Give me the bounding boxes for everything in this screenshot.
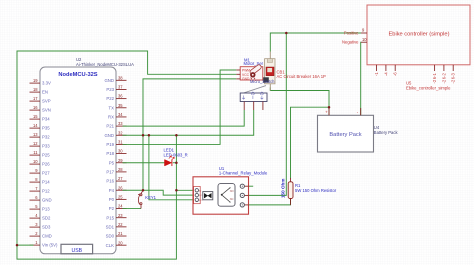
junction [285, 32, 288, 35]
svg-text:31: 31 [118, 140, 123, 145]
wire motor GND branch [143, 79, 236, 190]
junction [142, 189, 145, 192]
svg-text:P23: P23 [106, 87, 114, 92]
svg-text:SD2: SD2 [42, 216, 51, 221]
svg-text:34: 34 [118, 112, 123, 117]
junction [148, 134, 151, 137]
svg-text:SVN: SVN [42, 108, 51, 113]
svg-text:P12: P12 [42, 189, 50, 194]
led LED1 [164, 148, 188, 167]
svg-text:P14: P14 [42, 180, 50, 185]
svg-text:24: 24 [118, 204, 123, 209]
svg-text:CLK: CLK [106, 243, 114, 248]
svg-text:P16: P16 [106, 179, 114, 184]
svg-text:Battery Pack: Battery Pack [329, 132, 361, 138]
svg-text:36: 36 [118, 94, 123, 99]
junction [175, 134, 178, 137]
svg-text:P18: P18 [106, 151, 114, 156]
svg-text:11: 11 [33, 150, 38, 155]
svg-text:3.3V: 3.3V [42, 81, 51, 86]
wire GND row to switch pin2 [123, 110, 254, 135]
svg-text:17: 17 [33, 96, 38, 101]
svg-text:GND: GND [104, 78, 114, 83]
svg-text:RX: RX [108, 115, 114, 120]
svg-text:P2: P2 [109, 206, 115, 211]
svg-text:14: 14 [33, 123, 38, 128]
svg-text:AC Circuit Breaker 16A 1P: AC Circuit Breaker 16A 1P [277, 74, 327, 79]
svg-text:NC: NC [230, 197, 234, 201]
svg-text:KEY1: KEY1 [145, 195, 156, 200]
svg-text:18: 18 [33, 87, 38, 92]
resistor R1 150 Ohm [280, 178, 336, 205]
junction [175, 161, 178, 164]
svg-text:-2: -2 [451, 79, 456, 83]
svg-text:28: 28 [118, 167, 123, 172]
svg-text:5W 150 Ohm Resistor: 5W 150 Ohm Resistor [295, 188, 337, 193]
svg-text:P4: P4 [109, 188, 115, 193]
svg-text:13: 13 [33, 132, 38, 137]
usb connector of U2 [61, 244, 93, 254]
svg-text:P26: P26 [42, 162, 50, 167]
svg-text:P25: P25 [42, 153, 50, 158]
wire relay NC stub [244, 185, 253, 187]
wire P4 to key junction [123, 189, 144, 191]
svg-text:6-2: 6-2 [441, 73, 446, 80]
wire breaker top to controller Positive [270, 33, 361, 52]
svg-text:GND: GND [42, 198, 52, 203]
svg-text:15: 15 [33, 114, 38, 119]
svg-text:Vin (5V): Vin (5V) [42, 243, 58, 248]
svg-text:Positive: Positive [344, 31, 359, 36]
svg-text:Negative: Negative [342, 40, 359, 45]
wire breaker bottom to battery plus [270, 88, 329, 116]
circuit breaker CB1 [263, 52, 326, 91]
mcu U2 NodeMCU-32S [30, 57, 135, 254]
svg-text:SD3: SD3 [42, 225, 51, 230]
svg-text:SVP: SVP [42, 99, 51, 104]
svg-text:33: 33 [118, 121, 123, 126]
svg-text:19: 19 [33, 78, 38, 83]
wire GND branch to relay bottom pin [149, 135, 195, 200]
wire P21 to switch pin1 [123, 110, 245, 126]
wire P5 to LED anode [123, 162, 165, 164]
wire motor PWM to P19 [123, 70, 237, 144]
svg-text:150 Ohm: 150 Ohm [280, 179, 285, 198]
svg-text:P35: P35 [42, 126, 50, 131]
svg-text:P21: P21 [106, 124, 114, 129]
wire Vin 5V loop left [17, 51, 236, 245]
svg-text:Ebike controller (simple): Ebike controller (simple) [388, 31, 449, 37]
svg-text:P15: P15 [106, 215, 114, 220]
switch SW1 Micro_Switch [240, 79, 275, 110]
wire LED cathode to loop [173, 162, 177, 164]
svg-text:37: 37 [118, 85, 123, 90]
wire P2 to key bottom [123, 208, 142, 210]
svg-text:-6: -6 [393, 72, 398, 76]
svg-text:NodeMCU-32S: NodeMCU-32S [58, 72, 97, 78]
svg-text:P5: P5 [109, 160, 115, 165]
wire key junction to relay VCC mid pin [143, 190, 195, 195]
svg-text:38: 38 [118, 75, 123, 80]
svg-text:21: 21 [118, 231, 123, 236]
svg-text:SD0: SD0 [106, 234, 115, 239]
svg-text:12: 12 [33, 141, 38, 146]
relay module U1 1-Channel_Relay_Module [193, 166, 268, 214]
wire positive branch to relay NO terminal [244, 33, 286, 195]
svg-text:GND: GND [242, 77, 250, 81]
svg-text:Micro_Switch: Micro_Switch [250, 79, 275, 84]
svg-text:6-1: 6-1 [432, 73, 437, 80]
svg-text:26: 26 [118, 185, 123, 190]
svg-text:P17: P17 [106, 170, 114, 175]
battery pack U4 [318, 108, 399, 152]
svg-text:-1: -1 [374, 72, 379, 76]
svg-text:P19: P19 [106, 142, 114, 147]
svg-text:22: 22 [118, 222, 123, 227]
wire relay top pin to 5V loop [176, 189, 194, 191]
ebike controller U5 [342, 5, 470, 91]
svg-text:16: 16 [33, 105, 38, 110]
svg-text:P27: P27 [42, 171, 50, 176]
svg-text:35: 35 [118, 103, 123, 108]
svg-text:10: 10 [33, 159, 38, 164]
svg-text:TX: TX [109, 105, 115, 110]
wire battery plus to resistor top [291, 107, 330, 178]
svg-text:10: 10 [362, 37, 367, 42]
wire bottom 5V return [17, 136, 176, 259]
svg-text:23: 23 [118, 213, 123, 218]
svg-text:Ebike_controller_simple: Ebike_controller_simple [406, 86, 451, 91]
svg-text:NO: NO [230, 189, 234, 193]
svg-text:27: 27 [118, 176, 123, 181]
wire battery minus to controller Negative [360, 42, 362, 115]
svg-text:-2: -2 [441, 79, 446, 83]
svg-text:-4: -4 [383, 72, 388, 76]
svg-text:32: 32 [118, 130, 123, 135]
svg-text:USB: USB [71, 248, 82, 254]
svg-text:P13: P13 [42, 207, 50, 212]
svg-text:P0: P0 [109, 197, 115, 202]
junction [142, 134, 145, 137]
svg-text:P34: P34 [42, 117, 50, 122]
svg-text:EN: EN [42, 90, 48, 95]
svg-text:25: 25 [118, 194, 123, 199]
key switch KEY1 [138, 190, 157, 208]
svg-text:SD1: SD1 [106, 224, 115, 229]
svg-text:1-Channel_Relay_Module: 1-Channel_Relay_Module [219, 171, 268, 176]
svg-text:20: 20 [118, 240, 123, 245]
junction [175, 189, 178, 192]
svg-text:CMD: CMD [42, 234, 52, 239]
motor M1 Motor_Servo [236, 57, 263, 81]
svg-text:PWM: PWM [242, 68, 250, 72]
svg-text:VCC: VCC [242, 73, 250, 77]
svg-text:P22: P22 [106, 96, 114, 101]
svg-text:P32: P32 [42, 135, 50, 140]
svg-text:Ai-Thinker_NodeMCU-32SLUA: Ai-Thinker_NodeMCU-32SLUA [76, 62, 134, 67]
junction [328, 106, 331, 109]
junction [16, 244, 19, 247]
svg-text:LED-0603_R: LED-0603_R [164, 153, 188, 158]
svg-text:6-3: 6-3 [451, 73, 456, 80]
svg-text:29: 29 [118, 158, 123, 163]
wire relay common terminal to resistor bottom [244, 199, 290, 205]
svg-text:30: 30 [118, 149, 123, 154]
svg-text:GND: GND [104, 133, 114, 138]
svg-text:Battery Pack: Battery Pack [374, 130, 399, 135]
svg-text:P33: P33 [42, 144, 50, 149]
